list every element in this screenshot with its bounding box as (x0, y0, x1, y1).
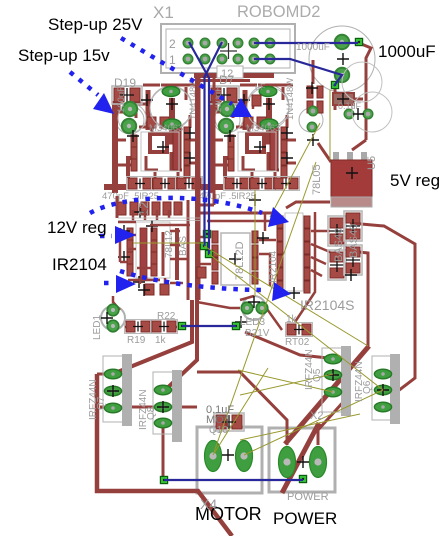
IC U3 driver left (118, 202, 189, 296)
wire: cap drop (334, 88, 337, 110)
svg-text:2: 2 (169, 37, 176, 51)
silkscreen texts (88, 3, 378, 512)
wire (318, 400, 345, 445)
wire (226, 419, 228, 427)
svg-text:X4: X4 (200, 496, 217, 512)
svg-text:1k: 1k (286, 314, 298, 325)
svg-text:1000uF: 1000uF (296, 42, 330, 53)
svg-text:0.1uF: 0.1uF (338, 101, 362, 111)
svg-text:1k: 1k (155, 335, 167, 346)
resistor R19 (125, 320, 152, 334)
wire (199, 212, 276, 215)
wire: V fan (189, 42, 222, 78)
wire: left L route (97, 374, 232, 536)
airwire (133, 242, 204, 244)
5V regulator U5 (331, 152, 372, 207)
step-up converter 1 (15v) (102, 78, 203, 202)
airwire (270, 123, 320, 217)
wire (148, 326, 182, 329)
capacitor outline 10uF a (342, 62, 382, 102)
svg-text:1: 1 (169, 53, 176, 67)
wire (318, 143, 331, 162)
wire: mid column right (213, 77, 216, 205)
arrow: upper long (90, 198, 262, 213)
svg-text:D7: D7 (219, 73, 235, 87)
svg-text:B21V: B21V (245, 328, 270, 339)
transistor Q8 (153, 370, 182, 442)
wire: 1000uF to 5V (359, 43, 371, 140)
MOTOR connector pads (205, 441, 253, 472)
svg-text:POWER: POWER (287, 491, 329, 503)
wire: mid vertical (163, 77, 197, 392)
svg-text:Q8: Q8 (146, 406, 157, 420)
airwire (329, 90, 331, 160)
airwire (240, 414, 360, 440)
capacitor 1000uF pads (331, 35, 362, 89)
IC U6 IR2104S right (235, 194, 310, 328)
wire: X1 to cap (254, 42, 358, 44)
wire: Q7 diagonal (115, 300, 192, 373)
wire: reg feeds (352, 140, 366, 150)
wire (212, 440, 215, 470)
cap outline right (299, 108, 323, 132)
POWER connector box (269, 428, 335, 492)
transistor T2 outline (214, 107, 240, 133)
LED1 outline (101, 306, 125, 330)
wire: power diagonal (282, 423, 319, 493)
svg-text:X1: X1 (153, 3, 174, 22)
diodes BAS40 column (328, 211, 362, 281)
svg-text:Q7: Q7 (96, 396, 107, 410)
LED1 pads (101, 304, 119, 332)
svg-text:X2: X2 (310, 410, 323, 422)
svg-text:IR2104: IR2104 (52, 255, 107, 274)
wire (286, 202, 330, 208)
wire: Q7-Q8 link (100, 406, 197, 409)
IC U4 78L12 center (212, 231, 269, 285)
resistor R22 (151, 320, 178, 334)
svg-text:POWER: POWER (273, 509, 337, 528)
LED3 outline (242, 296, 266, 320)
svg-text:Q6: Q6 (362, 380, 373, 394)
wire (264, 213, 267, 231)
capacitor 1000uF outline (309, 26, 375, 92)
svg-text:12: 12 (136, 202, 151, 216)
wire (197, 372, 287, 445)
wire (312, 60, 315, 84)
svg-text:uF: uF (255, 82, 266, 92)
wire: left IC traces (117, 196, 190, 284)
svg-text:BAS40: BAS40 (348, 224, 360, 258)
LED3 pads (241, 296, 268, 314)
svg-text:78L05: 78L05 (311, 164, 323, 195)
vias mid (200, 242, 207, 249)
capacitor C1 outline (247, 85, 289, 127)
wire: mid column left (198, 77, 201, 300)
svg-text:Q5: Q5 (312, 368, 323, 382)
connector X1 outline (161, 24, 295, 73)
svg-text:D19: D19 (114, 76, 136, 90)
svg-text:78L12D: 78L12D (234, 241, 246, 280)
svg-text:IR2104: IR2104 (268, 250, 279, 283)
svg-text:LED3: LED3 (240, 317, 265, 328)
wire (252, 95, 255, 109)
wire: vertical pair (205, 77, 210, 254)
transistor Q5 (322, 346, 351, 416)
wire (240, 296, 282, 330)
svg-text:U5: U5 (366, 156, 378, 170)
svg-text:5V reg: 5V reg (390, 171, 440, 190)
capacitor C14 0.1uF (333, 93, 354, 105)
airwire (213, 368, 268, 455)
wire (295, 212, 315, 322)
arrow: 12V reg short (100, 234, 112, 239)
wire (245, 332, 328, 358)
wire (259, 240, 276, 286)
transistor T1 outline (116, 106, 144, 134)
arrow: IR2104 short (104, 281, 112, 286)
wire: right big loop (350, 223, 415, 394)
step-up converter 2 (25V) (199, 78, 300, 202)
svg-text:Q10: Q10 (209, 425, 228, 436)
wire (207, 220, 283, 223)
airwire (254, 190, 256, 296)
wire: X1 to cap 2 (254, 59, 342, 86)
airwire (238, 370, 333, 392)
airwire (204, 246, 368, 346)
transistor Q7 (103, 354, 132, 426)
svg-text:ROBOMD2: ROBOMD2 (237, 3, 320, 21)
wire (311, 231, 330, 276)
airwire (244, 390, 383, 455)
capacitor C13 outline (150, 86, 192, 128)
wire (113, 296, 133, 327)
wire: R22 bus (182, 325, 236, 327)
svg-text:Step-up 15v: Step-up 15v (18, 46, 110, 65)
svg-text:1000uF: 1000uF (378, 42, 436, 61)
wire (199, 237, 211, 264)
svg-text:R22: R22 (157, 311, 176, 322)
wire: mid hub (187, 200, 190, 300)
arrow: Step-up 25V (121, 38, 232, 104)
arrow: lower long (120, 271, 267, 290)
airwire (209, 254, 383, 390)
svg-text:IR2104S: IR2104S (300, 297, 354, 313)
wire (199, 204, 214, 207)
wire: Q8 down (162, 421, 165, 479)
transistor Q6 (372, 354, 400, 424)
MOTOR connector box (197, 427, 262, 493)
wire: NE diagonal (285, 346, 369, 444)
silk box 12 (217, 66, 243, 78)
svg-text:12V reg: 12V reg (47, 218, 107, 237)
wire (197, 302, 240, 308)
svg-text:LED1: LED1 (92, 315, 103, 340)
arrow: Step-up 15v (70, 72, 98, 95)
capacitor outline 10uF b (352, 92, 392, 132)
svg-text:R19: R19 (127, 335, 146, 346)
airwire (214, 162, 316, 452)
airwire (240, 374, 333, 395)
wire: inner loop (350, 251, 368, 346)
capacitor 0.1uF C10 (214, 413, 244, 431)
wire: bottom bus (164, 479, 303, 481)
wire (243, 440, 246, 470)
resistor R16 (286, 323, 313, 337)
connector X1 pads (169, 37, 275, 80)
wire: connector bottom bus (194, 73, 274, 78)
svg-text:RT02: RT02 (285, 337, 310, 348)
svg-text:Step-up 25V: Step-up 25V (48, 15, 143, 34)
diode pads near 5V reg (252, 62, 392, 146)
svg-text:BAS40: BAS40 (333, 228, 345, 262)
POWER connector pads (279, 447, 327, 483)
